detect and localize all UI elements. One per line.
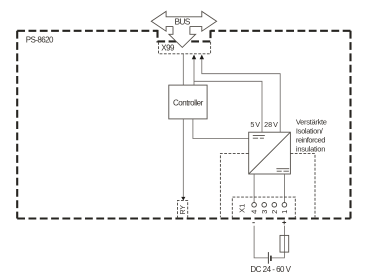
svg-text:BUS: BUS	[175, 16, 191, 26]
wire controller to converter	[193, 119, 249, 139]
svg-text:RY: RY	[180, 205, 187, 215]
fuse F1	[280, 235, 289, 252]
svg-text:reinforced: reinforced	[296, 136, 326, 145]
insulation boundary right dashed	[291, 154, 316, 218]
svg-text:DC 24 - 60 V: DC 24 - 60 V	[250, 265, 291, 274]
svg-text:Controller: Controller	[173, 98, 204, 107]
DC symbol output (bottom-right)	[276, 168, 289, 170]
battery plate short	[270, 256, 272, 261]
svg-text:4: 4	[250, 210, 259, 214]
arrowhead up at X99 (28V wire)	[200, 55, 204, 60]
relay RY dashed box	[178, 200, 188, 218]
down arrow BUS to X99	[169, 26, 196, 48]
insulation boundary left dashed	[220, 153, 248, 217]
terminal circle 2	[272, 203, 277, 208]
svg-text:X1: X1	[238, 204, 247, 213]
terminal circle 3	[262, 203, 267, 208]
svg-text:insulation: insulation	[296, 145, 326, 154]
terminal circle 1	[282, 203, 287, 208]
wire terminal 4 to battery	[254, 226, 268, 258]
svg-text:PS-8620: PS-8620	[26, 36, 54, 45]
svg-text:1: 1	[280, 210, 289, 214]
svg-text:X99: X99	[161, 44, 175, 53]
wire converter to terminal 1	[283, 174, 285, 203]
polarity label minus	[252, 222, 254, 224]
enclosure PS-8620 dashed border: top-left run	[17, 30, 157, 32]
svg-text:V: V	[255, 120, 260, 129]
svg-text:Verstärkte: Verstärkte	[296, 118, 327, 127]
svg-text:5: 5	[250, 120, 254, 129]
arrowhead down at RY	[181, 197, 185, 201]
polarity label plus	[282, 221, 286, 225]
wire converter 28V to X99	[202, 59, 280, 132]
enclosure border: right edge	[349, 31, 351, 219]
svg-text:Isolation/: Isolation/	[296, 127, 324, 136]
svg-text:2: 2	[270, 210, 279, 214]
BUS double arrow	[151, 11, 216, 31]
wire X99 to controller	[182, 54, 184, 85]
enclosure border: bottom edge	[17, 217, 350, 219]
wire converter to terminal 4	[253, 174, 255, 203]
wire terminal 1 through fuse to battery	[271, 226, 284, 258]
enclosure border: left edge	[16, 31, 18, 219]
controller block	[169, 85, 207, 119]
terminal block X1 dashed box	[232, 197, 295, 218]
terminal circle 4	[252, 203, 257, 208]
svg-text:28: 28	[264, 120, 272, 129]
connector X99 dashed box	[159, 42, 211, 54]
svg-text:V: V	[273, 120, 278, 129]
wire converter 5V to X99/controller	[194, 59, 262, 132]
enclosure border: X99 notch	[158, 30, 211, 42]
arrowhead up at X99 (5V wire)	[192, 55, 196, 60]
wire controller to RY	[182, 119, 184, 197]
DC symbol input (top-left)	[253, 135, 265, 137]
svg-text:3: 3	[260, 210, 269, 214]
battery plate long	[267, 252, 269, 264]
converter diagonal	[249, 133, 290, 174]
converter DC/DC block	[249, 132, 291, 174]
enclosure border: top-right run	[211, 30, 351, 32]
